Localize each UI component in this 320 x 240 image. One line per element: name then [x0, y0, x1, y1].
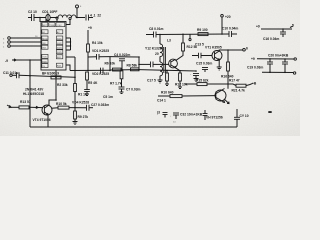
pin box TE — [42, 64, 48, 68]
node — [166, 70, 168, 72]
capacitor C32 — [173, 113, 179, 115]
wire rail to VT3 area — [139, 70, 196, 71]
resistor R7 — [120, 71, 123, 79]
transistor VT2 — [169, 59, 178, 68]
capacitor C17 — [139, 63, 150, 65]
scan noise — [0, 0, 1, 1]
capacitor C3 — [86, 15, 89, 21]
pin box SW1 — [56, 36, 62, 40]
pin box IN2 — [42, 41, 48, 45]
wire x75 vertical — [74, 57, 76, 84]
resistor R4 — [87, 44, 90, 52]
capacitor C4 — [119, 59, 125, 61]
node — [182, 34, 184, 36]
ink speck — [268, 111, 272, 113]
wire main mid rail — [70, 69, 110, 71]
pin box VDD — [42, 54, 48, 58]
pin stubs SW bus — [66, 38, 71, 50]
wire collector VT2 — [176, 51, 184, 61]
wire — [87, 52, 89, 71]
capacitor C18 — [193, 74, 199, 76]
capacitor C8 — [154, 32, 157, 38]
terminal — [69, 17, 71, 19]
transistor VT5 — [215, 90, 226, 101]
wire — [87, 30, 89, 44]
capacitor C27 — [87, 105, 90, 111]
terminal — [56, 17, 58, 19]
resistor R12 — [179, 73, 182, 81]
capacitor C31 — [236, 109, 238, 117]
node — [138, 56, 140, 58]
ground bus — [30, 126, 237, 128]
terminal 2 — [8, 41, 11, 44]
capacitor C20 — [269, 59, 271, 62]
wire — [76, 8, 78, 18]
pin box A2 — [56, 30, 62, 34]
wire — [11, 106, 19, 108]
terminal +20 — [221, 17, 223, 34]
terminal 3 — [8, 45, 11, 48]
wire — [88, 56, 97, 58]
wire — [109, 57, 111, 71]
transistor VT4 — [42, 105, 52, 115]
wire — [10, 41, 41, 43]
resistor R9 — [74, 108, 76, 111]
pin box TIME — [49, 23, 55, 27]
ground — [73, 122, 78, 125]
node — [227, 83, 229, 85]
node — [159, 34, 161, 36]
resistor R14 — [158, 95, 170, 97]
wire — [56, 19, 58, 22]
pin box MOD — [42, 36, 48, 40]
wire — [45, 19, 47, 23]
pin box R08 — [56, 63, 62, 67]
pin box SW3 — [56, 45, 62, 49]
wire — [69, 107, 87, 109]
crystal B1 — [46, 13, 50, 22]
node A — [39, 17, 41, 19]
resistor R2 — [51, 76, 61, 79]
capacitor C11 — [17, 72, 20, 78]
diode VD1 — [97, 54, 100, 60]
ground wire — [262, 71, 293, 73]
pin box R0B — [42, 59, 48, 63]
wire — [39, 18, 41, 23]
transistor VT3 — [212, 51, 222, 61]
resistor R5 — [86, 72, 89, 80]
pin box MET — [42, 23, 48, 27]
wire x47 vertical — [55, 70, 57, 100]
ground — [217, 67, 222, 70]
resistor R1 — [74, 84, 77, 92]
wire pin stub — [66, 20, 70, 25]
wire — [50, 17, 58, 19]
wire emitter VT5 — [225, 99, 230, 103]
resistor R12a — [182, 43, 185, 51]
wire to R10 — [52, 107, 59, 110]
wire collector VT3 — [219, 50, 242, 51]
capacitor C16 — [282, 29, 284, 32]
pin box SW2 — [56, 41, 62, 45]
wire R08 pin — [66, 65, 70, 71]
wire — [29, 106, 43, 108]
node — [138, 69, 140, 71]
resistor R9 — [198, 33, 208, 36]
pin box OSC — [56, 23, 65, 27]
wire — [29, 60, 31, 127]
node — [221, 33, 223, 35]
node stub — [189, 34, 191, 38]
terminal 1 — [8, 37, 11, 40]
wire — [76, 17, 85, 19]
resistor R11 — [166, 73, 169, 81]
resistor R20 — [233, 84, 236, 86]
terminal arrow bottom left — [7, 105, 11, 108]
capacitor C33a — [204, 110, 206, 114]
wire — [28, 17, 32, 19]
pin box SW5 — [56, 50, 62, 54]
pin box A1 — [42, 30, 48, 34]
terminal 6 — [243, 49, 246, 52]
IC U1 — [41, 22, 66, 71]
resistor R10 — [58, 106, 69, 109]
resistor R16 — [227, 50, 229, 62]
capacitor C33 — [163, 113, 168, 115]
node — [74, 70, 76, 72]
wire — [34, 17, 46, 19]
wire R02 pin — [66, 56, 75, 58]
terminal — [10, 74, 12, 76]
terminal 6 — [76, 5, 79, 8]
wire — [10, 37, 41, 39]
capacitor C2 — [32, 14, 35, 21]
wire — [19, 75, 75, 77]
node — [227, 49, 229, 51]
wire — [99, 56, 110, 58]
capacitor C10 — [229, 31, 232, 37]
wire vertical — [138, 57, 140, 70]
resistor R8 — [131, 68, 140, 71]
node B — [76, 17, 78, 19]
diode VD2 — [101, 68, 104, 74]
wire — [156, 33, 229, 36]
node — [87, 70, 89, 72]
node — [109, 70, 111, 72]
wire collector VT5 — [227, 84, 229, 89]
pin box R02 — [56, 55, 62, 59]
node — [29, 59, 31, 61]
wire — [16, 59, 41, 61]
node — [121, 69, 123, 71]
terminal +B — [246, 83, 253, 85]
wire emitter VT3 — [218, 60, 220, 67]
wire — [110, 56, 139, 58]
capacitor C7 — [119, 87, 125, 89]
wire — [12, 74, 16, 76]
ground — [158, 80, 163, 83]
resistor R13 — [19, 106, 29, 109]
wire — [146, 34, 154, 36]
wire emitter VT2 — [176, 68, 181, 73]
ground — [194, 79, 199, 82]
capacitor C21 — [284, 59, 286, 62]
capacitor C5 — [84, 90, 90, 92]
pin box IN3 — [42, 45, 48, 49]
resistor R7a — [113, 68, 122, 71]
wire — [10, 45, 41, 47]
wire — [89, 17, 94, 19]
inductor L1 — [58, 15, 76, 18]
